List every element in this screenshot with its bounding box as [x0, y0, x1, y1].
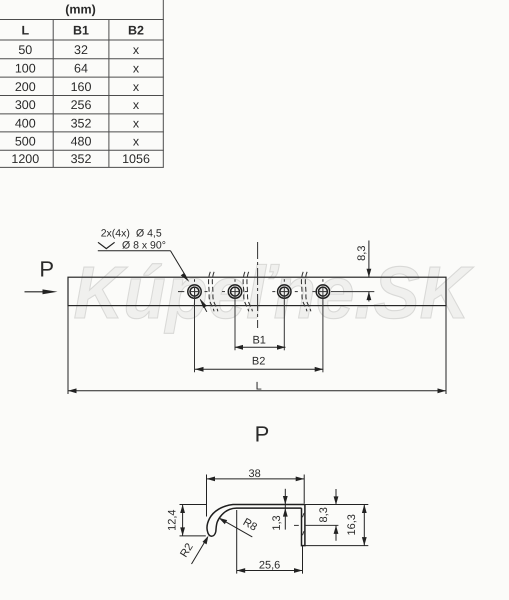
hole H2 — [228, 285, 241, 298]
svg-text:2x(4x): 2x(4x) — [101, 228, 130, 240]
svg-text:(mm): (mm) — [65, 3, 96, 17]
svg-text:L: L — [256, 380, 262, 392]
break lines — [209, 272, 311, 312]
1,3 dimension — [283, 489, 288, 530]
wall hatch — [302, 513, 305, 535]
svg-text:160: 160 — [71, 80, 92, 94]
38 dimension — [207, 475, 305, 517]
8,3 dimension (section) — [305, 489, 368, 541]
svg-text:16,3: 16,3 — [346, 514, 358, 535]
L dimension — [68, 306, 446, 394]
svg-text:100: 100 — [15, 62, 36, 76]
svg-text:R8: R8 — [241, 516, 259, 533]
dimension table — [0, 0, 164, 167]
svg-text:B1: B1 — [73, 24, 89, 38]
hole crosshairs — [190, 279, 327, 372]
svg-text:8,3: 8,3 — [318, 507, 330, 522]
countersink symbol — [98, 242, 115, 248]
svg-text:1056: 1056 — [122, 152, 150, 166]
svg-text:300: 300 — [15, 98, 36, 112]
svg-text:50: 50 — [18, 43, 32, 57]
B1 dimension — [235, 345, 286, 350]
horizontal centerline dashes around holes — [178, 291, 374, 293]
B2 dimension — [195, 367, 323, 372]
svg-text:32: 32 — [74, 43, 88, 57]
svg-text:B2: B2 — [128, 24, 144, 38]
svg-text:1200: 1200 — [11, 152, 39, 166]
svg-text:Ø 4,5: Ø 4,5 — [136, 228, 162, 240]
svg-text:x: x — [133, 43, 140, 57]
wall centerline — [294, 524, 299, 526]
leader line to hole 1 — [98, 251, 207, 312]
svg-text:352: 352 — [71, 116, 92, 130]
svg-text:B2: B2 — [252, 356, 265, 368]
svg-text:500: 500 — [15, 135, 36, 149]
hole H1 (countersunk, Ø4,5/Ø8) — [188, 285, 201, 298]
8,3 dimension (main) — [367, 241, 372, 302]
svg-text:x: x — [133, 135, 140, 149]
svg-text:R2: R2 — [178, 541, 196, 559]
svg-text:352: 352 — [71, 152, 92, 166]
profile outline — [207, 505, 305, 546]
svg-text:200: 200 — [15, 80, 36, 94]
svg-text:Kúpeľne.SK: Kúpeľne.SK — [74, 251, 474, 334]
R8 leader — [219, 518, 253, 537]
svg-text:480: 480 — [71, 135, 92, 149]
svg-text:1,3: 1,3 — [271, 515, 283, 530]
25,6 dimension — [237, 510, 303, 574]
svg-text:8,3: 8,3 — [356, 246, 368, 261]
svg-text:L: L — [21, 24, 29, 38]
svg-text:P: P — [255, 421, 270, 446]
svg-text:64: 64 — [74, 62, 88, 76]
svg-text:Ø 8 x 90°: Ø 8 x 90° — [122, 240, 166, 252]
12,4 dimension — [180, 505, 207, 536]
svg-text:38: 38 — [248, 468, 260, 480]
svg-text:x: x — [133, 98, 140, 112]
svg-text:x: x — [133, 80, 140, 94]
svg-text:P: P — [39, 257, 54, 282]
center line vertical — [257, 242, 259, 328]
view direction arrow — [25, 289, 58, 294]
16,3 dimension — [305, 505, 368, 546]
hole H4 — [316, 285, 329, 298]
svg-text:25,6: 25,6 — [259, 560, 280, 572]
svg-text:x: x — [133, 62, 140, 76]
svg-text:256: 256 — [71, 98, 92, 112]
svg-text:400: 400 — [15, 116, 36, 130]
bar body — [68, 277, 446, 305]
svg-text:B1: B1 — [252, 334, 265, 346]
hole H3 — [278, 285, 291, 298]
svg-text:x: x — [133, 116, 140, 130]
svg-text:12,4: 12,4 — [166, 509, 178, 530]
R2 leader — [192, 536, 209, 564]
